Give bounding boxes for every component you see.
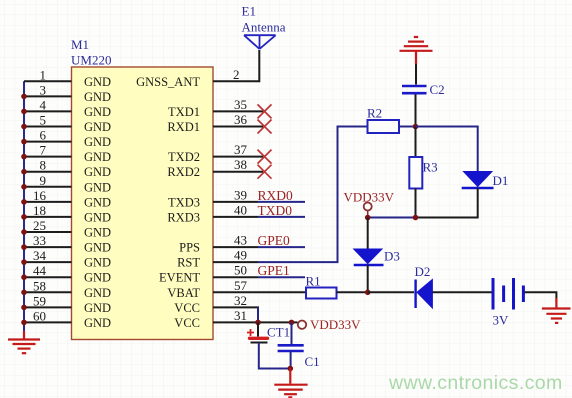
svg-text:VDD33V: VDD33V — [344, 190, 395, 205]
antenna E1 symbol — [244, 35, 276, 49]
wire node to R3 — [415, 127, 417, 158]
junction CT1/C1 ground node — [288, 366, 294, 372]
wire pin 44 (GND) — [24, 276, 72, 278]
svg-text:35: 35 — [234, 97, 247, 112]
wire pin31 junction down to CT1 — [257, 322, 259, 336]
wire pin 50 net GPE1 — [213, 276, 258, 278]
ground (right of battery) — [542, 298, 571, 323]
svg-text:RXD3: RXD3 — [167, 210, 200, 224]
svg-text:36: 36 — [234, 112, 248, 127]
svg-text:TXD3: TXD3 — [168, 195, 200, 209]
junction C1 branch on pin31 wire — [289, 320, 295, 326]
svg-text:M1: M1 — [71, 37, 89, 52]
svg-text:GND: GND — [84, 226, 111, 240]
capacitor CT1 (polarized) — [250, 338, 268, 342]
svg-text:VDD33V: VDD33V — [310, 317, 361, 332]
svg-text:R2: R2 — [367, 106, 382, 121]
svg-text:9: 9 — [40, 173, 47, 188]
svg-text:R1: R1 — [306, 274, 321, 289]
wire pin 59 (GND) — [24, 306, 72, 308]
wire pin 25 (GND) — [24, 231, 72, 233]
resistor R3 — [409, 157, 422, 189]
wire R3 to lower node — [415, 189, 417, 218]
wire D2 to battery — [432, 291, 491, 293]
wire CT1 bottom to C1 bottom junction — [259, 343, 290, 369]
svg-text:4: 4 — [40, 97, 47, 112]
wire pin 8 (GND) — [24, 171, 72, 173]
svg-text:D3: D3 — [384, 249, 400, 264]
svg-text:40: 40 — [234, 202, 247, 217]
no-ERC cross pin 36 — [258, 120, 272, 134]
wire pin 18 (GND) — [24, 216, 72, 218]
svg-text:RXD0: RXD0 — [258, 188, 294, 203]
svg-text:GND: GND — [84, 316, 111, 330]
chip M1 UM220 body — [72, 67, 214, 340]
wire node to D1 top — [416, 127, 478, 172]
svg-text:GND: GND — [84, 120, 111, 134]
svg-text:43: 43 — [234, 233, 247, 248]
svg-text:6: 6 — [40, 128, 47, 143]
diode D2 — [416, 280, 433, 309]
svg-text:GND: GND — [84, 210, 111, 224]
wire lower rail to VDD33V node — [368, 217, 416, 219]
pin names GND (left column) — [84, 75, 111, 330]
wire pin 2 to antenna — [213, 50, 259, 81]
wire pin 39 net RXD0 — [213, 201, 258, 203]
wire node to D2 — [368, 291, 414, 293]
wire D3 to R1 node — [367, 265, 369, 292]
svg-text:44: 44 — [33, 263, 47, 278]
svg-text:49: 49 — [234, 248, 247, 263]
junction dots on GND bus — [21, 94, 27, 326]
wire pin 38 (no connect) — [213, 171, 263, 173]
wire pin 60 (GND) — [24, 321, 72, 323]
junction R2/C2/R3 node — [413, 124, 419, 130]
pin names right column — [136, 75, 200, 330]
wire pin 35 (no connect) — [213, 110, 263, 112]
wire pin 57 (VBAT) to R1 — [213, 291, 306, 293]
capacitor C2 — [402, 86, 427, 93]
svg-text:58: 58 — [33, 278, 46, 293]
svg-text:2: 2 — [233, 67, 240, 82]
svg-text:GND: GND — [84, 241, 111, 255]
wire battery to ground — [525, 292, 557, 302]
wire pin 34 (GND) — [24, 261, 72, 263]
svg-text:GND: GND — [84, 90, 111, 104]
ground (top, above C2) — [400, 37, 433, 64]
no-ERC cross pin 37 — [258, 150, 272, 164]
power port VDD33V (at pin31) — [298, 321, 306, 329]
wire pin 4 (GND) — [24, 110, 72, 112]
wire D1 bottom to lower rail — [416, 188, 478, 218]
svg-text:37: 37 — [234, 142, 248, 157]
svg-text:3V: 3V — [493, 313, 510, 328]
resistor R1 — [306, 288, 337, 299]
svg-text:PPS: PPS — [179, 241, 200, 255]
wire GND bus vertical — [23, 81, 25, 331]
wire pin 1 (GND) — [24, 80, 72, 82]
svg-text:5: 5 — [40, 113, 47, 128]
svg-text:RXD1: RXD1 — [167, 120, 200, 134]
svg-text:TXD2: TXD2 — [168, 150, 200, 164]
svg-text:34: 34 — [33, 248, 47, 263]
wire C2 to node — [415, 95, 417, 127]
wire pin31 junction down to C1 — [291, 322, 293, 344]
svg-text:GND: GND — [84, 180, 111, 194]
wire pin 58 (GND) — [24, 291, 72, 293]
junction pin32/pin31 — [255, 320, 261, 326]
plus sign CT1 — [247, 329, 254, 336]
svg-text:1: 1 — [40, 67, 47, 82]
wire pin 40 net TXD0 — [213, 216, 258, 218]
ground (left, below GND bus) — [8, 331, 40, 353]
no-ERC cross pin 35 — [258, 104, 272, 118]
svg-text:Antenna: Antenna — [242, 20, 286, 35]
svg-text:GND: GND — [84, 286, 111, 300]
svg-text:UM220: UM220 — [71, 53, 111, 68]
svg-text:31: 31 — [234, 308, 247, 323]
wire pin 33 (GND) — [24, 246, 72, 248]
junction R1/D3/D2 node — [365, 290, 371, 296]
power port VDD33V (above D3) — [364, 203, 372, 211]
svg-text:D2: D2 — [415, 264, 431, 279]
wire pin 43 net GPE0 — [213, 246, 258, 248]
svg-text:C1: C1 — [305, 354, 320, 369]
svg-text:GND: GND — [84, 165, 111, 179]
svg-text:GND: GND — [84, 105, 111, 119]
svg-text:38: 38 — [234, 157, 247, 172]
svg-text:GND: GND — [84, 150, 111, 164]
wire pin 6 (GND) — [24, 141, 72, 143]
svg-text:8: 8 — [40, 158, 47, 173]
svg-text:32: 32 — [234, 293, 247, 308]
wire pin 49 (RST) — [213, 261, 258, 263]
svg-text:TXD0: TXD0 — [258, 203, 293, 218]
svg-text:VCC: VCC — [174, 316, 200, 330]
wire pin 31 (VCC) — [213, 321, 298, 323]
svg-text:GND: GND — [84, 135, 111, 149]
svg-text:VBAT: VBAT — [167, 286, 200, 300]
svg-text:59: 59 — [33, 293, 46, 308]
svg-text:GNSS_ANT: GNSS_ANT — [136, 75, 200, 89]
no-ERC cross pin 38 — [258, 165, 272, 179]
wire pin 9 (GND) — [24, 186, 72, 188]
capacitor C1 — [278, 345, 304, 351]
svg-text:GPE0: GPE0 — [258, 233, 291, 248]
svg-text:39: 39 — [234, 187, 247, 202]
diode D3 — [354, 249, 384, 265]
resistor R2 — [368, 120, 400, 133]
wire ground to C2 — [415, 64, 417, 85]
svg-text:GND: GND — [84, 271, 111, 285]
svg-text:www.cntronics.com: www.cntronics.com — [388, 372, 563, 394]
svg-text:GND: GND — [84, 256, 111, 270]
svg-text:VCC: VCC — [174, 301, 200, 315]
svg-text:60: 60 — [33, 308, 46, 323]
svg-text:C2: C2 — [430, 82, 445, 97]
svg-text:E1: E1 — [242, 4, 256, 19]
svg-text:7: 7 — [40, 143, 47, 158]
wire node to D3 — [367, 218, 369, 249]
svg-text:33: 33 — [33, 233, 46, 248]
svg-text:RXD2: RXD2 — [167, 165, 200, 179]
svg-text:50: 50 — [234, 263, 247, 278]
wire pin 37 (no connect) — [213, 156, 263, 158]
wire R1 to node — [337, 291, 368, 293]
wire pin 16 (GND) — [24, 201, 72, 203]
svg-text:25: 25 — [33, 218, 46, 233]
battery 3V — [493, 278, 523, 310]
svg-text:GND: GND — [84, 75, 111, 89]
svg-text:GND: GND — [84, 301, 111, 315]
ground (below C1) — [274, 369, 307, 398]
svg-text:RST: RST — [177, 256, 200, 270]
svg-text:57: 57 — [234, 278, 248, 293]
svg-text:CT1: CT1 — [267, 325, 290, 340]
svg-text:3: 3 — [40, 82, 47, 97]
wire pin 7 (GND) — [24, 156, 72, 158]
wire pin 5 (GND) — [24, 126, 72, 128]
wire R2 right to node — [399, 126, 416, 128]
svg-text:GND: GND — [84, 195, 111, 209]
wire pin 36 (no connect) — [213, 126, 263, 128]
svg-text:D1: D1 — [493, 173, 509, 188]
junction R3/D1 lower node — [413, 215, 419, 221]
svg-text:EVENT: EVENT — [159, 271, 200, 285]
wire pin 3 (GND) — [24, 95, 72, 97]
wire pin 32 (VCC) — [213, 306, 259, 308]
diode D1 — [462, 172, 494, 189]
junction VDD33V/D3 node — [365, 215, 371, 221]
svg-text:R3: R3 — [423, 160, 438, 175]
svg-text:GPE1: GPE1 — [258, 263, 290, 278]
svg-text:TXD1: TXD1 — [168, 105, 200, 119]
svg-text:18: 18 — [33, 203, 46, 218]
svg-text:16: 16 — [33, 188, 47, 203]
wire C1 to ground junction — [290, 351, 292, 369]
